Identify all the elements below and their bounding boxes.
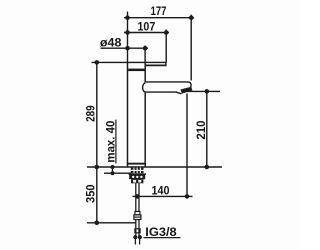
wire: mounting deck surface line	[87, 166, 222, 168]
wire: spout outlet leader (210 top)	[187, 90, 220, 92]
wire: deck underside line	[104, 172, 131, 174]
dimension 140 line	[133, 195, 193, 197]
node: dim dot 210 top	[205, 89, 210, 94]
aerator	[180, 87, 192, 94]
faucet body column	[128, 62, 146, 166]
wire: top height leader (289 top)	[92, 61, 167, 63]
svg-text:IG3/8: IG3/8	[145, 225, 177, 239]
dimension 107 line	[124, 32, 169, 34]
node: dim dot 177 left	[125, 15, 130, 20]
node: dim dot ø48 right	[143, 46, 148, 51]
node: dim dot 177 right	[189, 15, 194, 20]
dimension max.40 line	[112, 167, 114, 173]
node: dim dot 289 bottom / 350 top	[95, 165, 100, 170]
svg-text:289: 289	[83, 105, 97, 122]
node: hose end dot left	[133, 235, 137, 239]
svg-text:350: 350	[83, 184, 97, 203]
washer flange under deck	[129, 173, 146, 175]
supply hose lower	[135, 220, 140, 245]
wire: underline of max. 40	[115, 120, 117, 164]
faucet base ring	[127, 163, 146, 165]
wire: hose end leader (350 bottom)	[87, 222, 136, 224]
node: dim dot 140 right	[185, 194, 190, 199]
node: dim dot 210 bottom	[205, 165, 210, 170]
supply pipe upper	[136, 183, 139, 211]
node: dim dot ø48 left	[125, 46, 130, 51]
wire: extension line spout tip	[190, 15, 192, 81]
spout	[143, 82, 192, 94]
node: dim dot 140 left	[135, 194, 140, 199]
mounting nut	[129, 175, 145, 183]
svg-text:210: 210	[194, 120, 208, 139]
dimension 289/350 vertical line	[96, 62, 98, 222]
svg-text:ø48: ø48	[100, 35, 122, 49]
wire: extension line body right edge	[144, 46, 146, 63]
wire: extension line left (body left edge, top)	[127, 12, 129, 63]
node: dim dot max40 top	[111, 165, 115, 169]
node: dim dot 107 right	[164, 30, 169, 35]
svg-text:177: 177	[151, 4, 167, 18]
node: dim dot 350 bottom	[95, 221, 100, 226]
node: hose end dot right	[138, 235, 142, 239]
dimension 177 line	[124, 17, 194, 19]
hose coupling	[134, 212, 141, 220]
node: dim dot max40 bottom	[111, 171, 115, 175]
wire: extension line aerator down	[186, 94, 188, 197]
wire: extension line lever tip	[165, 30, 167, 63]
wire: underline of IG3/8	[144, 237, 181, 239]
dimension 210 vertical line	[206, 91, 208, 167]
svg-text:140: 140	[152, 183, 170, 197]
faucet cartridge seam band	[128, 69, 145, 72]
svg-text:107: 107	[138, 19, 156, 33]
dimension ø48 line	[101, 47, 149, 49]
lever handle	[145, 62, 166, 66]
threaded shank through deck	[131, 168, 144, 174]
node: dim dot 289 top	[95, 60, 100, 65]
node: dim dot 107 left	[125, 30, 130, 35]
